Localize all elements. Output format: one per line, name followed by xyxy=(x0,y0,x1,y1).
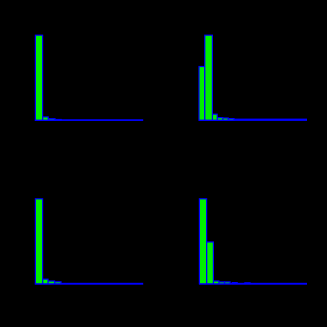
bottom-right histogram bar 4 xyxy=(219,282,225,284)
top-left histogram bar 3 xyxy=(48,119,55,121)
bottom-right histogram bump bin 6 xyxy=(232,282,238,284)
bottom-right histogram bump bin 7 xyxy=(244,282,250,284)
top-left histogram baseline xyxy=(35,119,143,121)
top-left histogram bar 2 xyxy=(43,117,49,120)
bottom-left histogram baseline xyxy=(35,283,143,285)
top-left histogram bar 4 xyxy=(55,119,61,122)
bottom-right histogram bar 1 xyxy=(199,199,206,284)
bottom-right histogram bar 3 xyxy=(213,281,219,284)
top-right histogram bar 4 xyxy=(217,118,223,121)
bottom-left histogram bar 2 xyxy=(43,279,48,284)
top-right histogram bar 1 xyxy=(199,67,205,121)
bottom-left histogram bar 1 xyxy=(35,199,42,284)
bottom-right histogram baseline xyxy=(199,283,307,285)
top-right histogram bar 6 xyxy=(228,119,234,121)
top-right histogram bar 5 xyxy=(223,118,228,120)
bottom-right histogram bar 2 xyxy=(207,242,214,284)
top-right histogram bar 3 xyxy=(212,114,217,120)
top-right histogram bar 2 xyxy=(205,35,213,120)
bottom-left histogram bar 3 xyxy=(48,281,55,284)
bottom-right histogram bar 5 xyxy=(225,282,231,284)
bottom-left histogram bar 4 xyxy=(55,282,61,284)
top-left histogram bar 1 xyxy=(35,35,42,120)
top-right histogram baseline xyxy=(199,119,307,121)
